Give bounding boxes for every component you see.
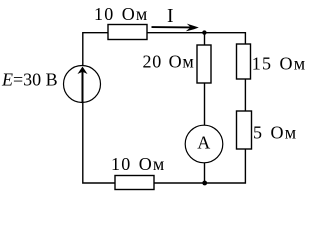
ammeter PA1 (circle)	[185, 125, 223, 163]
wire middle: node A down to R2	[204, 33, 206, 45]
wire bottom-left: R5 left to corner up to source	[83, 103, 115, 184]
resistor R3 (15 Ом, right upper)	[237, 44, 251, 79]
svg-text:10 Ом: 10 Ом	[94, 4, 149, 24]
wire right: R3 bottom to R4 top	[244, 79, 246, 111]
wire bottom: node B to resistor R5 right	[154, 182, 205, 184]
wire top: R1 right to node A	[147, 32, 205, 34]
wire left: source top to top-left corner	[82, 45, 84, 66]
wire top-left: corner (82,32) to resistor R1 left	[83, 33, 108, 45]
resistor R1 (10 Ом, top)	[108, 25, 147, 40]
resistor R5 (10 Ом, bottom)	[115, 176, 154, 190]
svg-text:5 Ом: 5 Ом	[253, 123, 297, 143]
svg-text:E=30 В: E=30 В	[1, 70, 58, 90]
current arrow I	[152, 24, 199, 32]
resistor R4 (5 Ом, right lower)	[237, 111, 252, 149]
wire top: node A to right corner, down to R3	[204, 33, 245, 44]
svg-text:10 Ом: 10 Ом	[111, 154, 166, 174]
resistor R2 (20 Ом, middle)	[197, 45, 211, 83]
svg-text:20 Ом: 20 Ом	[143, 52, 195, 72]
wire middle: R2 bottom to ammeter top	[204, 83, 206, 126]
svg-text:А: А	[197, 132, 210, 152]
node A (top junction dot)	[202, 30, 206, 34]
source E (circle with up arrow)	[64, 66, 101, 103]
svg-text:15 Ом: 15 Ом	[252, 54, 306, 74]
wire middle: ammeter bottom to node B	[204, 163, 206, 183]
svg-text:I: I	[167, 6, 174, 27]
node B (bottom junction dot)	[202, 181, 207, 186]
wire right: R4 bottom to bottom-right corner	[205, 149, 246, 183]
